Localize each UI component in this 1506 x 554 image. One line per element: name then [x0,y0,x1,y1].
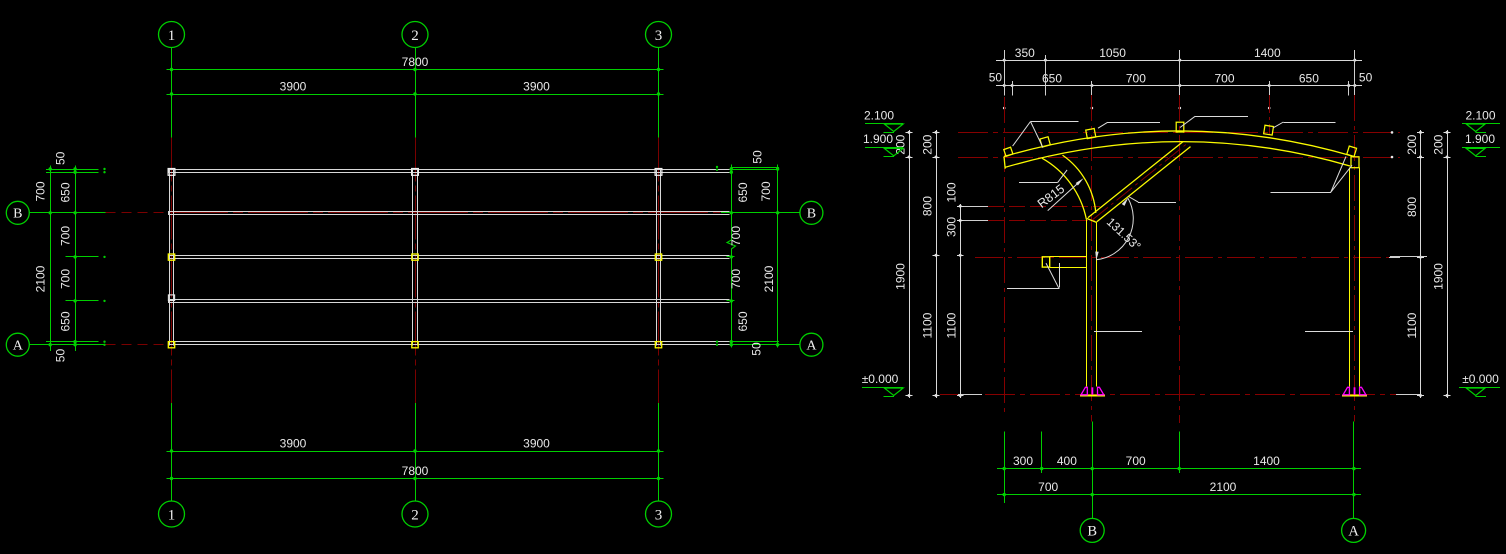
section axis dot x=1269.2 [1268,107,1271,110]
svg-text:50: 50 [750,342,764,356]
section centerline P4 red [1269,95,1271,135]
svg-text:2: 2 [411,28,419,44]
svg-text:700: 700 [1126,72,1146,86]
svg-text:1100: 1100 [945,312,959,338]
angle arc 131.53 [1095,198,1133,261]
section column A right edge [1359,168,1361,387]
section right dim line inner [1417,130,1424,398]
section dim text 400 bottom [1057,454,1077,468]
section dim text 200 left-outer [894,134,908,154]
section ground white left [958,394,982,396]
plan column square grid3 row3 yellow [655,254,661,260]
plan grid bubble 3 top [646,22,672,48]
section ext stub axis A [1354,50,1356,96]
section roof beam bottom edge [1005,142,1351,168]
svg-text:700: 700 [59,226,73,246]
section bracket level red line [975,257,1400,259]
section bracket bottom edge [1050,267,1087,269]
plan lower middle purlin [168,300,729,303]
plan column square grid2 row3 yellow [412,254,418,260]
plan dim text 650 right lower [736,311,750,331]
rail line right [1305,331,1353,333]
section column A cap square [1351,157,1359,168]
section dim text 1400 top [1254,46,1281,60]
section axis dot x=1179.8 [1179,107,1182,110]
svg-text:±0.000: ±0.000 [1462,372,1499,386]
plan right dim line outer [776,165,779,348]
svg-text:50: 50 [54,349,68,363]
angle leader tail [1129,197,1177,203]
section centerline B red [1091,95,1093,422]
leader purlin P4 [1273,122,1336,128]
svg-text:700: 700 [1126,454,1146,468]
section level 1.900 red line [958,156,1400,159]
section strut centerline red [1092,144,1186,220]
svg-text:3: 3 [655,508,663,524]
plan grid line 3 upper green [658,48,660,138]
svg-text:700: 700 [729,269,743,289]
plan grid bubble 2 bottom [402,501,428,527]
svg-text:650: 650 [59,311,73,331]
plan axis bubble B right [800,201,823,224]
section purlin square 4 [1176,122,1184,132]
section roof beam tip cap [1004,157,1005,169]
plan column square grid3 row1 white [655,169,662,176]
plan top edge purlin [168,169,729,172]
svg-text:200: 200 [1405,134,1419,154]
section ext stub axis P4 [1269,81,1271,96]
svg-text:B: B [807,207,816,222]
section elev 2.100 right [1462,108,1500,132]
section dim text 2100 bottom [1210,480,1237,494]
section purlin square 2 [1040,137,1050,147]
plan B row red dash left [106,212,168,214]
plan column square grid1 row5 yellow [168,342,174,348]
plan grid line 1 centerline red [171,138,173,403]
section level 2.100 red line [958,131,1400,134]
leader left purlins pair [1013,122,1079,148]
plan dim line 3900 bottom [167,449,664,452]
leader purlin B [1098,122,1160,128]
plan dim text 50 bottom-left [54,349,68,363]
svg-text:800: 800 [921,196,935,216]
svg-text:650: 650 [736,182,750,202]
svg-text:100: 100 [945,182,959,202]
section right ext line 257 [1390,256,1427,258]
plan dim text 650 left upper [59,182,73,202]
section right dim line outer [1444,130,1451,398]
section purlin square 3 [1086,129,1096,139]
svg-text:700: 700 [34,181,48,201]
section elev 1.900 right [1462,132,1500,157]
section column B right edge [1096,223,1098,387]
section dim text 200 left-mid [921,134,935,154]
section base hatch column B [1081,387,1104,395]
section ext stub axis 1012 [1012,81,1014,96]
section centerline A red [1354,95,1356,422]
section dim text 1100 left-mid [921,312,935,338]
plan dim text 700 left [34,181,48,201]
plan frame 2 double line [413,169,418,346]
plan grid line 2 lower green [415,403,417,501]
svg-text:B: B [13,207,22,222]
svg-text:A: A [13,339,24,354]
plan axis bubble B left [6,201,29,224]
plan grid bubble 3 bottom [646,501,672,527]
plan dim text 700 right outer [759,181,773,201]
plan A row green right [721,344,800,346]
plan grid bubble 1 top [159,22,185,48]
plan column square grid2 row1 white [412,169,419,176]
plan dim text 50 top-left [54,151,68,165]
svg-text:2: 2 [411,508,419,524]
svg-text:650: 650 [736,311,750,331]
plan dim line 3900 top [167,92,664,95]
svg-text:1: 1 [168,28,176,44]
plan dim text 50 top-right [751,150,765,164]
section axis dot x=1091.9 [1091,107,1094,110]
svg-text:700: 700 [1038,480,1058,494]
plan grid line 2 upper green [415,48,417,138]
section centerline L1 red [1004,97,1006,413]
section dim text 1900 left [894,263,908,290]
svg-text:±0.000: ±0.000 [862,372,899,386]
section base plate column B [1080,395,1105,397]
leader bracket stub [1007,263,1059,289]
svg-text:B: B [1087,523,1097,539]
svg-text:A: A [806,339,817,354]
svg-text:700: 700 [59,269,73,289]
section ext stub axis B [1091,81,1093,96]
svg-text:3900: 3900 [523,437,550,451]
svg-text:3900: 3900 [280,80,307,94]
svg-text:1050: 1050 [1099,46,1126,60]
svg-text:3: 3 [655,28,663,44]
svg-text:1.900: 1.900 [863,132,893,146]
plan left dim line inner [73,166,76,352]
plan B row green left [29,212,105,214]
svg-text:1: 1 [168,508,176,524]
section dim text 50 left [989,71,1003,85]
plan left dim line outer [49,166,52,352]
plan ext line mid row3 left [66,256,106,258]
section elev 0.000 left [862,372,904,397]
section ext stub axis 350 [1045,55,1047,96]
section dim text 1100 right [1405,312,1419,338]
plan right dim line inner [727,165,736,348]
plan ext lines 50 bottom-left [46,341,106,346]
plan grid line 1 lower green [171,403,173,501]
plan bottom edge purlin [168,341,729,344]
leader purlin peak [1180,116,1248,127]
plan ext tick row4 right [727,300,735,302]
svg-text:400: 400 [1057,454,1077,468]
plan grid line 3 centerline red [658,138,660,403]
svg-text:300: 300 [1013,454,1033,468]
section bottom ext line B [1092,422,1094,519]
svg-text:300: 300 [945,217,959,237]
plan A row red centerline [168,344,721,346]
plan dim text 7800 top [402,55,429,69]
section base hatch column A [1343,387,1366,395]
plan middle purlin [168,256,729,259]
section base plate column A [1342,395,1367,397]
svg-text:50: 50 [751,150,765,164]
section axis dot x=1004.2 [1003,107,1006,110]
svg-text:50: 50 [1359,71,1373,85]
section ground white right [1396,394,1420,396]
svg-text:2100: 2100 [34,265,48,292]
section left dim line outer [906,130,913,398]
plan dim text 3900 top right [523,80,550,94]
section roof beam top edge [1004,131,1353,157]
plan column square grid1 row3 yellow [168,254,174,260]
section bottom dim line 2 (700/2100) [997,493,1361,496]
svg-text:2.100: 2.100 [1465,108,1495,122]
svg-text:1400: 1400 [1254,46,1281,60]
section dim text 650 top-left [1042,72,1062,86]
section left dim line mid [933,130,940,398]
plan B row red centerline [168,212,721,214]
svg-text:1100: 1100 [921,312,935,338]
svg-text:50: 50 [989,71,1003,85]
plan dim text 3900 bottom left [280,437,307,451]
svg-text:3900: 3900 [523,80,550,94]
plan ext lines 50 top-left [46,168,106,174]
svg-text:700: 700 [1214,72,1234,86]
section elev 2.100 left [864,108,903,132]
plan dim text 650 left lower [59,311,73,331]
plan grid bubble 2 top [402,22,428,48]
svg-text:1900: 1900 [1432,263,1446,290]
svg-text:3900: 3900 [280,437,307,451]
section ext stub axis 1348 [1348,81,1350,96]
svg-text:200: 200 [921,134,935,154]
section elbow inner curve [1063,155,1096,213]
plan dim text 2100 right [762,265,776,292]
plan ext line mid row4 left [66,300,106,302]
plan grid line 2 centerline red [415,138,417,403]
plan dim text 3900 bottom right [523,437,550,451]
section dim text 1100 left-inner [945,312,959,338]
section column A left edge [1349,168,1351,387]
svg-text:650: 650 [59,182,73,202]
svg-text:700: 700 [729,226,743,246]
section bottom ext line A [1353,422,1355,519]
section dim text 300 bottom [1013,454,1033,468]
svg-text:1900: 1900 [894,263,908,290]
section elbow outer curve [1042,158,1086,219]
section centerline C red [1179,95,1181,423]
plan frame 1 double line [170,169,174,346]
plan ext tick row3 right [727,256,735,258]
plan grid line 1 upper green [171,48,173,138]
plan dim text 700 left mid-upper [59,226,73,246]
plan axis bubble A right [800,333,823,356]
section axis bubble A [1342,518,1366,542]
section strut upper edge [1088,142,1183,218]
section bottom ext line C [1179,431,1181,473]
section dim text 200 right-outer [1432,134,1446,154]
section dim text 1050 [1099,46,1126,60]
svg-text:200: 200 [1432,134,1446,154]
plan dim text 50 bottom-right [750,342,764,356]
section dim text 700 bottom2 [1038,480,1058,494]
plan axis bubble A left [6,333,29,356]
section top dim line lower (50/650/700/700/650/50) [996,82,1362,89]
section dim text 800 right [1405,197,1419,217]
section elev 1.900 left [863,132,903,157]
section dim text 650 top-right [1299,72,1319,86]
section purlin square 5 [1264,125,1274,135]
svg-text:A: A [1348,523,1359,539]
section column B left edge [1086,219,1088,386]
svg-text:800: 800 [1405,197,1419,217]
plan column square grid3 row5 yellow [655,342,661,348]
svg-text:1100: 1100 [1405,312,1419,338]
section bottom dim line 1 (300/400/700/1400) [997,467,1361,470]
plan dim text 700 right mid-lower [729,269,743,289]
R815 leader [1019,170,1067,183]
section dim text 800 left [921,196,935,216]
plan column square grid2 row5 yellow [412,342,418,348]
plan purlin at B [168,212,729,215]
R815 radius arrow [1048,178,1084,210]
plan dim text 700 right mid-upper [729,226,743,246]
plan ext lines 50 bottom-right [716,341,779,346]
R815 text [1035,182,1067,211]
angle text 131.53 [1104,215,1144,254]
section dim text 350 [1015,46,1035,60]
section dim text 700 top-right [1214,72,1234,86]
section strut bottom ext line [960,220,1095,222]
section bottom ext line L1 [1004,431,1006,502]
section strut lower edge [1097,147,1191,222]
svg-text:2.100: 2.100 [864,108,894,122]
plan A row green left [29,344,105,346]
svg-text:50: 50 [54,151,68,165]
plan column square grid1 row1 white [168,169,175,176]
plan A row red dash left [106,344,168,346]
svg-text:650: 650 [1299,72,1319,86]
section dim text 200 right-inner [1405,134,1419,154]
section bracket cap square [1042,257,1049,267]
svg-text:700: 700 [759,181,773,201]
plan dim line 7800 bottom [167,477,664,480]
section bracket top edge [1050,256,1087,258]
svg-text:7800: 7800 [402,55,429,69]
plan grid line 3 lower green [658,403,660,501]
plan dim text 700 left mid-lower [59,269,73,289]
plan grid bubble 1 bottom [159,501,185,527]
section left dim line inner [957,204,964,398]
section dim text 700 top-left [1126,72,1146,86]
section dim text 100 left [945,182,959,202]
svg-text:2100: 2100 [762,265,776,292]
leader roof right end [1271,157,1353,193]
plan dim text 2100 left [34,265,48,292]
plan dim text 3900 top left [280,80,307,94]
section purlin square 6 [1347,146,1357,156]
section dim text 300 left [945,217,959,237]
svg-text:1400: 1400 [1253,454,1280,468]
plan frame 3 double line [657,169,661,346]
section dim text 1900 right [1432,263,1446,290]
rail line left [1094,331,1142,333]
svg-text:7800: 7800 [402,464,429,478]
svg-text:2100: 2100 [1210,480,1237,494]
section bottom ext line 1041 [1041,431,1043,473]
svg-text:1.900: 1.900 [1465,132,1495,146]
section ext stub axis C [1179,50,1181,96]
section dim text 1400 bottom [1253,454,1280,468]
plan B row green right [721,212,800,214]
plan dim text 7800 bottom [402,464,429,478]
plan dim text 650 right upper [736,182,750,202]
plan dim line 7800 top [167,68,664,71]
section column B top miter [1087,219,1097,223]
section dim text 50 right [1359,71,1373,85]
svg-text:200: 200 [894,134,908,154]
section dim text 700 bottom [1126,454,1146,468]
section purlin square 1 [1004,147,1013,156]
section ground red line [940,394,1420,396]
section elev 0.000 right [1459,372,1500,397]
plan column square grid1 row4 white [168,295,174,301]
section strut top ext line [960,206,1100,208]
plan ext lines 50 top-right [716,166,779,171]
section top dim line upper (350/1050/1400) [996,57,1362,64]
section ext stub axis L1 [1004,50,1006,96]
section axis bubble B [1080,518,1104,542]
svg-text:350: 350 [1015,46,1035,60]
